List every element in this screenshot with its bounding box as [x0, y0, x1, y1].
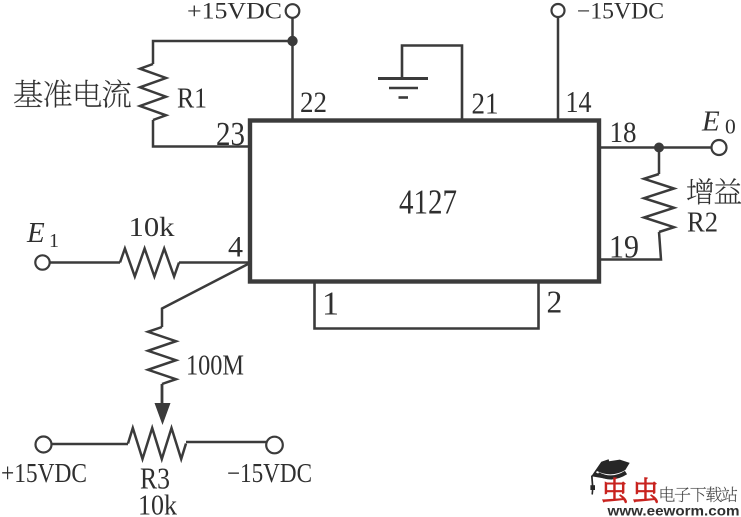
resistor R2 [644, 174, 674, 232]
wire pin 21 to ground [402, 46, 462, 121]
svg-text:23: 23 [216, 116, 245, 153]
svg-text:10k: 10k [138, 490, 177, 517]
wire 10k to pin 4 [179, 261, 251, 264]
wire +15VDC terminal to pin 22 [291, 18, 294, 120]
wire pin 18 to E0 terminal [599, 146, 712, 149]
wire E1 terminal to 10k resistor [50, 261, 120, 264]
terminal E1 [35, 255, 49, 269]
svg-text:E: E [701, 106, 720, 138]
svg-text:100M: 100M [186, 350, 244, 382]
label 基准电流 (reference current) [14, 80, 42, 107]
resistor 10k (input) [120, 249, 179, 277]
svg-text:19: 19 [609, 230, 639, 266]
junction node (+15V / R1) [287, 36, 297, 46]
svg-text:R2: R2 [687, 207, 718, 239]
resistor R3 potentiometer [128, 428, 186, 459]
svg-text:1: 1 [49, 230, 59, 252]
resistor 100M [148, 327, 176, 384]
terminal -15VDC (top) [552, 4, 565, 17]
svg-text:4127: 4127 [399, 183, 457, 222]
terminal +15VDC (bottom) [36, 437, 52, 453]
svg-text:−15VDC: −15VDC [227, 458, 312, 488]
node E1 label [26, 217, 59, 252]
svg-text:E: E [26, 217, 45, 249]
resistor R1 [140, 64, 166, 120]
wire R2 bottom to pin 19 [599, 232, 661, 260]
svg-text:2: 2 [547, 285, 563, 320]
svg-text:14: 14 [566, 84, 592, 119]
wire pin 1 to pin 2 loop [315, 283, 539, 329]
logo 电子下载站 [661, 487, 675, 502]
terminal +15VDC (top) [286, 4, 300, 18]
op-amp IC U1 4127 body [250, 121, 599, 282]
svg-text:www.eeworm.com: www.eeworm.com [606, 504, 739, 517]
wire +15VDC terminal to R3 [52, 443, 128, 446]
ground [378, 79, 428, 98]
terminal -15VDC (bottom) [266, 437, 283, 454]
svg-text:0: 0 [725, 115, 736, 139]
wire R3 to -15VDC terminal [186, 441, 266, 444]
svg-text:R1: R1 [177, 83, 207, 115]
svg-text:+15VDC: +15VDC [1, 458, 87, 488]
wire pin 4 to 100M (diagonal) [162, 264, 249, 328]
svg-text:−15VDC: −15VDC [577, 0, 664, 24]
wire -15VDC terminal to pin 14 [557, 17, 560, 120]
logo 虫虫 (red) [603, 478, 626, 503]
arrow wiper of R3 [155, 403, 171, 425]
svg-text:21: 21 [472, 86, 499, 121]
svg-text:22: 22 [300, 86, 327, 119]
node E0 label [701, 106, 736, 139]
svg-text:+15VDC: +15VDC [187, 0, 282, 24]
logo graduation cap icon [590, 459, 629, 494]
label 增益 (gain) [687, 178, 713, 204]
svg-text:18: 18 [610, 116, 637, 149]
wire junction to R1 top [153, 41, 293, 64]
wire junction to R2 top [658, 148, 661, 175]
junction node (E0 / R2) [654, 143, 664, 153]
wire 100M to wiper arrow [161, 384, 164, 408]
svg-text:4: 4 [228, 231, 243, 264]
svg-text:10k: 10k [129, 212, 176, 242]
terminal E0 [712, 140, 727, 155]
wire R1 bottom to pin 23 [153, 120, 251, 147]
svg-text:1: 1 [322, 286, 339, 323]
